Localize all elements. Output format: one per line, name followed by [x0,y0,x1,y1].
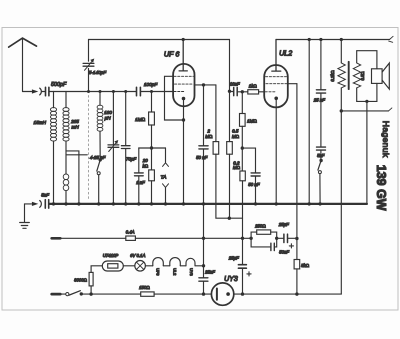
svg-text:180: 180 [104,110,112,115]
switch S2 tone [319,159,322,162]
svg-text:70pF: 70pF [126,156,137,161]
node mains junction [202,292,205,295]
node RC right [275,237,278,240]
wire output stub [341,110,388,112]
UL2 grid dashed [266,76,287,78]
svg-text:8000Ω: 8000Ω [74,278,87,283]
UL2 screen dashed [266,83,287,85]
wire mains to switch [60,293,65,295]
transformer T1 secondary winding [353,63,360,88]
ground [24,204,26,222]
resistor R4 0.5M [229,91,231,141]
mains terminal [52,293,61,296]
wire R11 to UY3 [154,293,211,295]
wire grid line UF6 [23,91,174,93]
antenna [9,38,37,47]
UL2 anode lead and plate [272,40,281,72]
resistor R3 2M [215,85,217,142]
node B+ stub [340,109,343,112]
svg-text:250Ω: 250Ω [254,224,266,229]
svg-text:MΩ: MΩ [233,165,241,170]
UF6 anode lead and plate [179,40,187,71]
resistor R2 20k [151,148,153,170]
lamp 6V 0.1A [135,261,146,272]
svg-text:0.4A: 0.4A [126,229,135,234]
node speaker return [365,100,368,103]
svg-text:5nF: 5nF [317,153,325,158]
svg-text:25µF: 25µF [278,222,289,227]
node R6 bottom [241,146,244,149]
capacitor C16 25uF electrolytic [242,238,244,294]
capacitor C8 10nF [230,91,234,93]
svg-text:500pF: 500pF [51,82,67,88]
svg-text:mH: mH [72,125,80,130]
wire cathode to bus [183,120,185,204]
heater UY3 [186,258,195,266]
wire grid-leak row [139,147,166,149]
svg-text:UL2: UL2 [279,49,292,58]
capacitor C10 25nF tone [320,40,322,147]
resistor R5 1k [242,91,248,93]
node R10 junction [89,292,92,295]
speaker LS [372,69,383,84]
node RC left [249,237,252,240]
wire heater link [180,265,186,267]
wire switch to R10 [81,293,140,295]
UF6 control grid dashed [174,91,184,93]
resistor R6 1M [241,92,243,114]
svg-text:6V 0.1A: 6V 0.1A [130,253,145,258]
node divider tie [228,217,231,220]
polarity plus [247,272,251,276]
svg-text:Hagenuk: Hagenuk [381,121,391,158]
earth input stub [25,203,32,205]
svg-text:1 nF: 1 nF [136,180,145,185]
node screen feed heater junction [295,237,298,240]
svg-text:0.2kΩ: 0.2kΩ [330,70,335,81]
switch S3 mains [66,293,69,296]
inductor L2 285mH [65,92,67,108]
capacitor C15 25uF electrolytic [277,237,297,239]
wire UY3 output [234,293,341,295]
wire S1 to bus [98,175,100,204]
inductor L4 180uH [99,92,101,106]
svg-text:UL2: UL2 [172,268,177,275]
wire L2 tap [66,151,87,204]
node screen tap [202,83,205,86]
tube UF6 [173,64,194,106]
resistor R10 8000ohm dropper [90,286,92,294]
node grid junctions [87,90,153,93]
svg-text:0.5Ω: 0.5Ω [360,71,365,80]
variable capacitor C2 5-140pF [88,40,90,92]
svg-text:139 GW: 139 GW [374,165,388,211]
svg-text:10nF: 10nF [230,82,240,87]
wire L1 to bus [53,141,55,204]
tube UL2 [264,65,288,107]
node R1 bottom [150,146,153,149]
capacitor C7 50nF screen bypass [203,85,205,204]
tube UY3 rectifier [211,283,233,305]
switch S1 waveband [99,158,102,161]
inductor L1 15mH [53,92,55,108]
node heater chain end [202,264,205,267]
svg-text:5kΩ: 5kΩ [301,263,309,268]
resistor R11 150ohm [141,292,154,296]
capacitor C13 25nF mains [199,278,208,281]
antenna plug connector [32,89,38,93]
transformer T1 primary winding [338,63,345,88]
svg-text:25nF: 25nF [204,269,215,274]
svg-text:TA: TA [161,174,167,180]
svg-text:4-25 pF: 4-25 pF [90,155,106,160]
svg-text:150Ω: 150Ω [139,285,150,290]
svg-text:1MΩ: 1MΩ [135,117,146,122]
wire L4 to switch [99,131,101,160]
UF6 grid g3 dashed [174,75,193,77]
svg-text:15mH: 15mH [34,120,47,125]
capacitor C11 5nF tone [317,147,326,150]
wire anode rail B [276,39,390,41]
wire heater line [60,237,251,239]
trimmer capacitor C3 4-25pF [112,92,114,204]
svg-text:UF 6: UF 6 [164,50,179,59]
wire L2 to bus [65,141,67,204]
svg-text:50 nF: 50 nF [196,155,208,160]
svg-text:50 nF: 50 nF [248,182,260,187]
svg-text:UY3: UY3 [189,268,194,276]
svg-text:MΩ: MΩ [205,134,213,139]
wire B+ dropper line [308,40,310,204]
node rail B+ feeds [308,38,343,41]
resistor R1 1M [151,92,153,113]
node bus junctions [52,202,322,205]
svg-text:µH: µH [105,116,112,121]
earth plug connector [32,202,38,206]
node cathode junction [182,118,185,121]
svg-text:U7410P: U7410P [103,253,119,258]
wire lamp to heaters [145,265,152,267]
capacitor C1 500pF [46,87,49,95]
capacitor C9 50nF [242,148,255,204]
node 5k junction [295,292,298,295]
rail end tick [389,36,393,42]
wire barretter to lamp [123,265,135,267]
heater UL2 [170,258,181,266]
wire speaker loop [357,51,377,102]
resistor R9 250ohm [251,232,277,238]
UF6 screen tap right [194,84,216,86]
node 10nF left [228,90,231,93]
heater supply terminal [52,237,61,240]
wire B+ feed down [340,88,342,294]
resistor R7 0.2M [241,148,243,171]
UL2 screen tap [288,83,297,85]
UF6 grid g2 dashed [175,83,194,85]
capacitor C14 50nF cathode [251,238,277,247]
UL2 control grid dashed [265,91,276,93]
barretter U7410P [102,261,123,271]
UL2 cathode [274,97,278,101]
wire gang dashed [88,96,90,201]
svg-text:1MΩ: 1MΩ [247,118,257,123]
inductor L3 coupling coil [63,174,69,191]
transformer T1 primary lead [340,40,342,63]
svg-text:25 nF: 25 nF [313,97,326,102]
heater UF6 [153,258,164,266]
UF6 cathode [182,97,186,101]
wire screen feed UL2 [296,84,298,260]
wire heater chain end [195,265,204,267]
svg-text:MΩ: MΩ [232,134,240,139]
svg-text:5-140pF: 5-140pF [89,70,108,75]
wire bus drop to heater line [203,204,205,294]
node C16 bottom [241,292,244,295]
wire heater link [163,265,170,267]
svg-text:kΩ: kΩ [143,163,149,168]
svg-text:285: 285 [70,119,79,124]
resistor R8 5k [294,260,300,269]
wire rail corner to 10nF [229,40,231,92]
UF6 screen tap left [165,76,184,120]
svg-text:100pF: 100pF [144,82,158,87]
chassis bus [49,203,367,205]
wire anode rail A [89,39,230,41]
svg-text:5nF: 5nF [41,192,49,197]
stub end tick [389,108,392,111]
wire bus riser [366,101,368,203]
node UF6 anode top [182,38,185,41]
svg-text:1kΩ: 1kΩ [249,84,257,89]
capacitor C5 100pF [137,87,141,95]
capacitor C12 5nF [45,200,48,208]
capacitor C4 70pF [125,92,127,204]
node heater line left [202,237,205,240]
transformer T1 core [348,62,350,89]
node 1M top [241,90,244,93]
capacitor C6 1nF [138,148,140,204]
fuse Si 0.4A [126,236,136,240]
node heater junctions [241,237,244,240]
wire antenna down-lead [22,38,24,91]
svg-text:UF6: UF6 [156,268,161,275]
terminal TA jack [165,148,167,162]
polarity plus [289,244,293,248]
svg-text:25µF: 25µF [228,255,239,260]
svg-text:UY3: UY3 [224,276,238,283]
svg-text:50nF: 50nF [279,250,289,255]
